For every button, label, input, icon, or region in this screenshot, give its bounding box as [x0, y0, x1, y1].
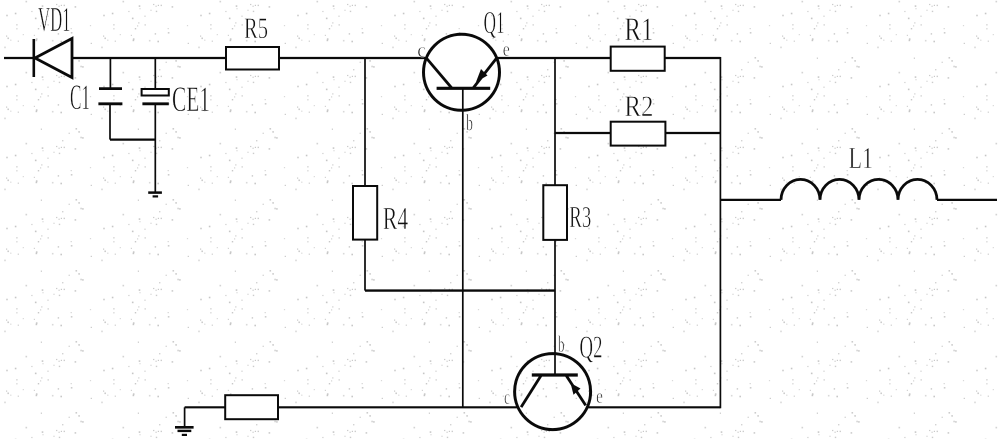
svg-text:e: e [596, 384, 603, 408]
svg-text:b: b [558, 332, 565, 357]
resistor R3 [543, 185, 567, 240]
svg-text:c: c [417, 38, 426, 62]
svg-text:b: b [466, 111, 473, 136]
transistor Q2 [515, 354, 591, 430]
wire [364, 240, 366, 291]
wire [937, 199, 997, 201]
wire [554, 240, 556, 375]
svg-text:Q2: Q2 [580, 329, 603, 365]
diode VD1 [34, 39, 72, 78]
wire [365, 289, 555, 291]
wire [720, 199, 781, 201]
wire [555, 132, 611, 134]
svg-text:C1: C1 [70, 77, 90, 117]
wire [4, 57, 33, 59]
capacitor CE1 [142, 58, 169, 193]
wire [278, 406, 518, 408]
wire [279, 57, 426, 59]
svg-text:Q1: Q1 [484, 4, 505, 40]
ground [175, 407, 194, 435]
wire Q1 base down [462, 88, 464, 407]
wire [665, 132, 720, 134]
wire [72, 57, 226, 59]
wire [364, 58, 366, 186]
resistor R2 [611, 122, 666, 146]
resistor R1 [611, 47, 665, 71]
svg-text:R4: R4 [383, 200, 409, 236]
resistor (unlabeled) [225, 395, 278, 419]
inductor L1 [781, 179, 937, 200]
svg-text:R1: R1 [624, 12, 653, 48]
wire [110, 139, 155, 141]
resistor R5 [226, 47, 279, 70]
wire middle vertical top [554, 58, 556, 185]
ground [148, 193, 162, 197]
capacitor C1 [98, 58, 122, 140]
transistor Q1 [424, 34, 500, 110]
wire [587, 406, 720, 408]
svg-text:R2: R2 [624, 90, 653, 123]
svg-text:VD1: VD1 [38, 0, 71, 39]
wire [665, 57, 721, 59]
svg-text:L1: L1 [849, 140, 874, 175]
wire right vertical [719, 57, 721, 408]
resistor R4 [353, 186, 377, 240]
svg-text:CE1: CE1 [172, 79, 210, 119]
wire [185, 406, 226, 408]
wire [497, 57, 611, 59]
svg-text:R5: R5 [244, 12, 268, 45]
svg-text:R3: R3 [569, 199, 591, 234]
svg-text:c: c [504, 385, 510, 409]
